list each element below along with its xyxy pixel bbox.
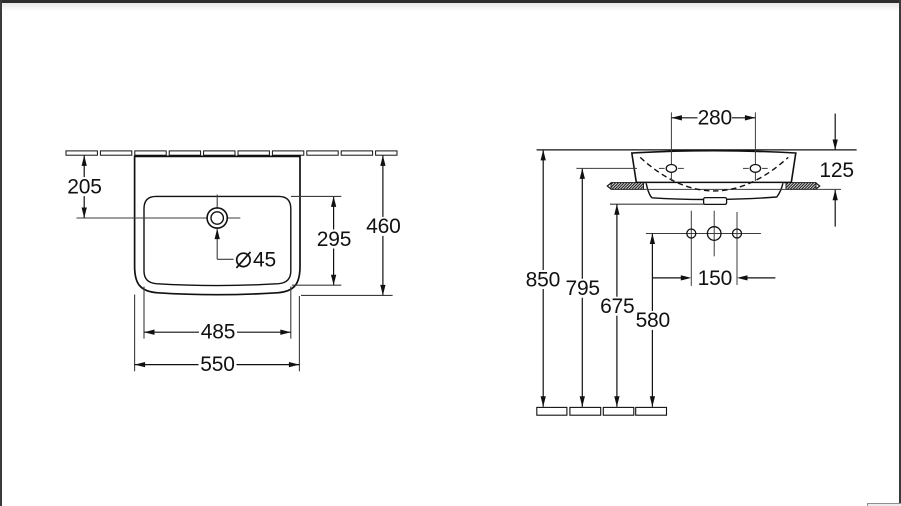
svg-text:850: 850 — [526, 268, 560, 291]
svg-text:125: 125 — [819, 159, 853, 182]
svg-text:460: 460 — [366, 215, 400, 238]
svg-text:45: 45 — [253, 249, 276, 272]
svg-text:795: 795 — [565, 277, 599, 300]
svg-text:550: 550 — [200, 353, 234, 376]
svg-text:675: 675 — [600, 295, 634, 318]
svg-text:205: 205 — [67, 175, 101, 198]
svg-text:485: 485 — [201, 321, 235, 344]
svg-text:580: 580 — [636, 309, 670, 332]
svg-text:280: 280 — [698, 107, 732, 130]
svg-text:295: 295 — [317, 228, 351, 251]
svg-text:150: 150 — [698, 267, 732, 290]
